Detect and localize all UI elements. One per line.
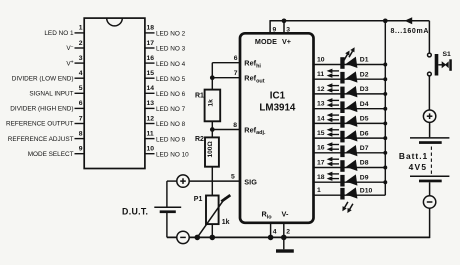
LED D2 xyxy=(327,69,358,85)
svg-text:D9: D9 xyxy=(360,174,369,181)
wire IC1 pin 1 to LED D10 and anode bus xyxy=(314,194,386,196)
wire R2 bottom to P1 top xyxy=(211,167,213,196)
DIP pin 12 stub xyxy=(145,123,155,125)
DIP pin 2 stub xyxy=(75,47,85,49)
svg-text:DIVIDER (HIGH END): DIVIDER (HIGH END) xyxy=(10,106,73,113)
LED D5 xyxy=(327,113,358,129)
junction pin 8 / R1 / R2 xyxy=(210,127,215,132)
svg-text:LED NO 5: LED NO 5 xyxy=(156,76,186,83)
svg-text:5: 5 xyxy=(79,85,83,92)
svg-text:D6: D6 xyxy=(360,130,369,137)
svg-text:8: 8 xyxy=(233,122,237,129)
DIP pin 9 stub xyxy=(75,153,85,155)
junction P1 wiper / 0V rail xyxy=(195,235,201,241)
svg-text:18: 18 xyxy=(147,25,155,32)
wire IC1 pin 10 to LED D1 and anode bus xyxy=(314,64,386,66)
junction anode bus / V+ rail xyxy=(383,18,388,23)
svg-text:S1: S1 xyxy=(443,51,452,58)
pushbutton switch S1 xyxy=(428,53,452,76)
svg-text:10: 10 xyxy=(317,56,325,63)
svg-text:6: 6 xyxy=(234,55,238,62)
svg-text:6: 6 xyxy=(79,100,83,107)
wire IC1 pin 17 to LED D8 and anode bus xyxy=(314,167,386,169)
wire IC1 pin 15 to LED D6 and anode bus xyxy=(314,137,386,139)
junction LED D8 anode / bus xyxy=(383,166,387,170)
svg-text:3: 3 xyxy=(286,26,290,33)
svg-text:7: 7 xyxy=(79,115,83,122)
ground xyxy=(276,237,294,252)
junction LED D7 anode / bus xyxy=(383,151,387,155)
wire IC1 pin 16 to LED D7 and anode bus xyxy=(314,152,386,154)
wire D.U.T. battery symbol to 0V rail xyxy=(166,213,168,237)
svg-text:11: 11 xyxy=(317,71,324,78)
wire D.U.T. plus to IC1 pin 5 (SIG) xyxy=(189,180,240,182)
junction pin 6 / pin 7 / R1 xyxy=(210,75,215,80)
svg-text:R1: R1 xyxy=(195,93,204,100)
LED D7 xyxy=(327,142,358,158)
svg-text:15: 15 xyxy=(317,130,325,137)
DIP pin 11 stub xyxy=(145,138,155,140)
svg-text:IC1: IC1 xyxy=(270,91,286,102)
wire IC1 pin 14 to LED D5 and anode bus xyxy=(314,122,386,124)
svg-text:100Ω: 100Ω xyxy=(207,141,214,158)
resistor R1 xyxy=(205,90,221,122)
wire IC1 pin 13 to LED D4 and anode bus xyxy=(314,108,386,110)
DIP pin 5 stub xyxy=(75,92,85,94)
LED D9 xyxy=(327,172,358,188)
svg-text:8: 8 xyxy=(79,130,83,137)
svg-text:2: 2 xyxy=(79,40,83,47)
Batt.1 minus terminal xyxy=(423,196,435,208)
svg-text:9: 9 xyxy=(273,26,277,33)
junction LED D6 anode / bus xyxy=(383,136,387,140)
junction pin 2 / 0V rail xyxy=(281,235,287,241)
svg-text:5: 5 xyxy=(231,173,235,180)
junction LED D5 anode / bus xyxy=(383,121,387,125)
svg-text:V-: V- xyxy=(282,210,289,219)
svg-text:Batt.1: Batt.1 xyxy=(399,151,428,161)
svg-text:9: 9 xyxy=(79,146,83,153)
DIP pin 6 stub xyxy=(75,107,85,109)
wire IC1 pin 12 to LED D3 and anode bus xyxy=(314,93,386,95)
svg-text:4V5: 4V5 xyxy=(409,162,428,172)
svg-text:17: 17 xyxy=(317,159,325,166)
svg-text:14: 14 xyxy=(317,115,325,122)
wire D.U.T. plus terminal to battery symbol xyxy=(167,181,177,207)
D.U.T. minus terminal xyxy=(177,231,189,243)
svg-text:12: 12 xyxy=(317,86,325,93)
LED D3 xyxy=(327,83,358,99)
svg-text:4: 4 xyxy=(79,70,83,77)
svg-text:SIG: SIG xyxy=(244,177,257,186)
svg-text:14: 14 xyxy=(147,85,155,92)
wire IC1 pin 18 to LED D9 and anode bus xyxy=(314,181,386,183)
wire LED anode bus xyxy=(384,21,386,195)
svg-text:P1: P1 xyxy=(194,196,203,203)
wire IC1 pin 2 stub to 0V rail xyxy=(283,223,285,238)
junction LED D1 anode / bus xyxy=(383,63,387,67)
svg-text:15: 15 xyxy=(147,70,155,77)
wire R1 bottom to R2 top xyxy=(211,121,213,137)
Batt.1 plus terminal xyxy=(423,110,435,122)
LED D4 xyxy=(327,98,358,114)
svg-text:D2: D2 xyxy=(360,71,369,78)
DIP pin 16 stub xyxy=(145,62,155,64)
svg-text:D7: D7 xyxy=(360,145,369,152)
DIP pin 4 stub xyxy=(75,77,85,79)
IC1 LM3914 body xyxy=(240,33,314,223)
svg-text:13: 13 xyxy=(147,100,155,107)
svg-text:D5: D5 xyxy=(360,116,369,123)
svg-text:1k: 1k xyxy=(222,219,230,226)
wire P1 bottom to 0V rail xyxy=(211,224,213,237)
wire R1 top lead xyxy=(211,78,213,90)
svg-text:16: 16 xyxy=(317,145,325,152)
wire minus terminal to 0V rail xyxy=(429,208,431,238)
wire Batt.1 to minus terminal xyxy=(429,182,431,196)
svg-text:4: 4 xyxy=(273,229,277,236)
LED D8 xyxy=(327,157,358,173)
svg-text:LED NO 10: LED NO 10 xyxy=(156,151,189,158)
svg-text:7: 7 xyxy=(234,70,238,77)
junction pin 4 / 0V rail xyxy=(268,235,274,241)
svg-text:16: 16 xyxy=(147,55,155,62)
DIP pin 3 stub xyxy=(75,62,85,64)
DIP pin 8 stub xyxy=(75,138,85,140)
svg-text:1: 1 xyxy=(79,25,83,32)
resistor R2 xyxy=(205,137,219,166)
svg-text:LED NO 9: LED NO 9 xyxy=(156,136,186,143)
svg-text:8...160mA: 8...160mA xyxy=(391,28,430,35)
svg-text:LED NO 1: LED NO 1 xyxy=(44,30,74,37)
DIP pin 18 stub xyxy=(145,32,155,34)
svg-text:R2: R2 xyxy=(195,136,204,143)
svg-text:SIGNAL INPUT: SIGNAL INPUT xyxy=(29,91,73,98)
svg-text:D1: D1 xyxy=(360,57,369,64)
svg-text:18: 18 xyxy=(317,174,325,181)
svg-text:13: 13 xyxy=(317,101,325,108)
svg-text:D3: D3 xyxy=(360,86,369,93)
junction pin 3 / V+ rail xyxy=(282,18,287,23)
svg-text:D4: D4 xyxy=(360,101,369,108)
LED D6 xyxy=(327,128,358,144)
LED D10 xyxy=(340,187,357,213)
svg-text:LM3914: LM3914 xyxy=(259,103,295,114)
svg-text:MODE SELECT: MODE SELECT xyxy=(28,151,74,158)
svg-text:DIVIDER (LOW END): DIVIDER (LOW END) xyxy=(12,75,74,82)
potentiometer P1 xyxy=(197,195,230,237)
wire IC1 pin 11 to LED D2 and anode bus xyxy=(314,78,386,80)
wire IC1 pin 9 stub to V+ rail xyxy=(269,20,271,33)
junction P1 bottom / 0V rail xyxy=(210,235,216,241)
svg-text:LED NO 7: LED NO 7 xyxy=(156,106,186,113)
svg-text:1: 1 xyxy=(317,187,321,194)
svg-text:LED NO 8: LED NO 8 xyxy=(156,121,186,128)
svg-text:LED NO 4: LED NO 4 xyxy=(156,61,186,68)
svg-text:D10: D10 xyxy=(360,187,373,194)
junction LED D4 anode / bus xyxy=(383,107,387,111)
svg-text:D.U.T.: D.U.T. xyxy=(122,206,148,216)
svg-text:3: 3 xyxy=(79,55,83,62)
DIP pin 15 stub xyxy=(145,77,155,79)
junction LED D2 anode / bus xyxy=(383,77,387,81)
svg-text:2: 2 xyxy=(286,229,290,236)
IC package outline (LM3914 DIP-18 pinout, top view) xyxy=(84,18,145,168)
wire IC1 pin 3 stub to V+ rail xyxy=(283,21,285,34)
battery Batt.1 cells xyxy=(410,138,449,182)
svg-text:REFERENCE OUTPUT: REFERENCE OUTPUT xyxy=(6,121,74,128)
LED D1 xyxy=(340,47,357,69)
svg-text:MODE: MODE xyxy=(255,37,277,46)
wire IC1 pin 6 to R1 top xyxy=(212,63,240,78)
svg-text:REFERENCE ADJUST: REFERENCE ADJUST xyxy=(8,136,74,143)
svg-text:12: 12 xyxy=(147,115,155,122)
DIP pin 10 stub xyxy=(145,153,155,155)
svg-text:LED NO 2: LED NO 2 xyxy=(156,31,186,38)
svg-text:10: 10 xyxy=(147,146,155,153)
wire V+ top rail xyxy=(270,20,429,22)
DIP pin 13 stub xyxy=(145,107,155,109)
DIP pin 1 stub xyxy=(75,32,85,34)
svg-text:LED NO 6: LED NO 6 xyxy=(156,91,186,98)
current direction arrow xyxy=(405,17,413,24)
wire 0V bottom rail xyxy=(167,236,430,238)
svg-text:LED NO 3: LED NO 3 xyxy=(156,46,186,53)
wire IC1 pin 4 stub to 0V rail xyxy=(270,223,272,238)
wire S1 to Batt.1 plus terminal xyxy=(428,76,430,111)
D.U.T. battery symbol xyxy=(154,207,181,213)
DIP pin 14 stub xyxy=(145,92,155,94)
svg-text:D8: D8 xyxy=(360,160,369,167)
svg-text:1k: 1k xyxy=(208,99,215,107)
DIP pin 17 stub xyxy=(145,47,155,49)
D.U.T. plus terminal xyxy=(177,175,189,187)
wire IC1 pin 7 to R1 top xyxy=(212,77,240,79)
svg-text:17: 17 xyxy=(147,40,155,47)
wire IC1 pin 8 to R1-R2 node xyxy=(212,129,240,131)
DIP pin 7 stub xyxy=(75,123,85,125)
wire V+ rail to S1 xyxy=(428,21,430,53)
junction LED D9 anode / bus xyxy=(383,180,387,184)
svg-text:V+: V+ xyxy=(282,37,291,46)
junction LED D3 anode / bus xyxy=(383,92,387,96)
wire plus terminal to Batt.1 xyxy=(429,122,431,137)
svg-text:11: 11 xyxy=(147,130,154,137)
